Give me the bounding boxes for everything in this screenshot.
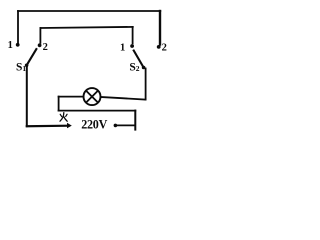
lamp circle [84, 88, 101, 105]
wire neutral terminal drop [134, 111, 136, 130]
wire S2 contact 2 drop [159, 11, 161, 45]
node S1 contact 1 [16, 43, 20, 47]
switch S2 pivot [142, 66, 146, 70]
svg-text:2: 2 [162, 42, 167, 53]
node supply terminal dot [114, 124, 118, 128]
wire second traveller horizontal [41, 27, 133, 28]
wire lamp left [59, 96, 84, 98]
node S2 contact 1 [130, 44, 134, 48]
wire under-lamp horizontal [59, 110, 136, 112]
arrowhead live wire [67, 123, 72, 129]
wire lamp branch down [58, 97, 60, 111]
svg-text:S2: S2 [129, 61, 139, 73]
switch S1 lever [27, 48, 37, 65]
label 火 (live wire, drawn strokes) [60, 113, 67, 122]
svg-text:220V: 220V [81, 118, 107, 132]
node S2 contact 2 [157, 45, 161, 49]
svg-text:S1: S1 [16, 61, 26, 73]
wire top traveller horizontal [18, 10, 160, 12]
svg-text:1: 1 [120, 42, 125, 53]
wire S1 common down [26, 66, 28, 126]
wire S2 contact 1 drop [132, 27, 134, 43]
wire live lead bottom left [27, 125, 69, 128]
node S1 contact 2 [38, 43, 42, 47]
switch S2 lever [133, 50, 143, 68]
svg-text:2: 2 [43, 42, 48, 53]
wire neutral terminal stub [117, 124, 134, 126]
wire S2 common to lamp [101, 97, 146, 100]
wire S1 contact 1 drop [17, 11, 19, 43]
lamp cross [86, 91, 98, 103]
wire S1 contact 2 drop [39, 28, 41, 43]
wire S2 common down [145, 69, 147, 100]
switch S1 pivot [25, 64, 29, 68]
svg-text:1: 1 [8, 40, 13, 51]
